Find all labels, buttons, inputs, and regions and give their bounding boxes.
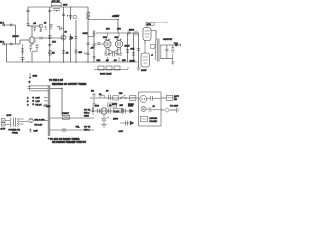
svg-text:FUSE: FUSE — [12, 132, 18, 134]
capacitor C36 — [27, 24, 30, 26]
label above terminal — [170, 104, 179, 107]
wire grid A — [94, 43, 104, 45]
wire coupling row — [35, 37, 64, 39]
note text line1 — [49, 80, 63, 82]
choke L1 — [100, 95, 105, 98]
resistor R5 — [48, 51, 51, 56]
label fuse — [12, 132, 18, 134]
capacitor C32 — [87, 43, 90, 45]
resistor R11 — [128, 31, 131, 34]
label right top — [174, 96, 180, 101]
tube V3 — [104, 40, 111, 47]
capacitor C22 on tap — [63, 128, 65, 132]
label J2 — [0, 41, 5, 43]
arrow output right — [130, 121, 134, 125]
wire plate stub — [31, 26, 33, 37]
wire to speaker terminal — [176, 44, 180, 47]
capacitor C6 bars — [48, 10, 51, 11]
capacitor C26 — [109, 108, 111, 113]
svg-text:117V: 117V — [1, 129, 6, 131]
wire grid V1 — [20, 39, 29, 41]
svg-text:GRN: GRN — [84, 116, 89, 118]
svg-text:8 uF: 8 uF — [114, 111, 119, 113]
label +285V — [112, 15, 120, 18]
svg-text:6.3V: 6.3V — [36, 101, 41, 103]
resistor R15 — [116, 52, 119, 55]
svg-text:6.3V: 6.3V — [34, 131, 39, 133]
label under box — [113, 118, 119, 121]
box label 117 — [114, 108, 122, 113]
wire V3 bottom — [106, 47, 109, 62]
resistor box R18 — [98, 66, 104, 70]
capacitor C33 — [84, 53, 89, 55]
svg-text:HEATERS OF OUTPUT TUBES: HEATERS OF OUTPUT TUBES — [52, 83, 87, 86]
svg-text:SW: SW — [120, 105, 123, 107]
label right of R3 — [63, 5, 67, 7]
svg-text:PILOT: PILOT — [36, 104, 43, 106]
capacitor C12 — [10, 24, 12, 27]
capacitor C1 on left drop — [27, 10, 30, 11]
svg-text:6.3V: 6.3V — [119, 131, 124, 133]
label near x70 — [70, 38, 74, 40]
wire vertical x76 — [75, 20, 77, 62]
plug P1 — [140, 96, 147, 103]
capacitor C18 — [120, 54, 123, 56]
transformer T1 core — [157, 39, 159, 62]
resistor R26 — [146, 108, 161, 111]
svg-text:117V: 117V — [174, 96, 180, 98]
resistor box R19 — [106, 66, 112, 70]
wire vertical x70.5 — [70, 7, 72, 62]
wire left of V6 — [138, 33, 140, 68]
label 6V6 B — [115, 37, 120, 39]
transformer T1 primary winding — [154, 40, 157, 60]
svg-text:.05: .05 — [106, 60, 110, 62]
svg-text:1K: 1K — [52, 53, 55, 55]
svg-text:OR PHONO PREAMP OUTPUT: OR PHONO PREAMP OUTPUT — [52, 141, 87, 144]
wire drop to screen line — [117, 20, 119, 34]
svg-text:.05: .05 — [114, 60, 118, 62]
label right stack3 — [84, 126, 91, 132]
wire bus left — [47, 85, 49, 136]
wire screen line — [96, 32, 139, 34]
svg-text:10W: 10W — [63, 5, 67, 7]
svg-text:PIN 4: PIN 4 — [84, 129, 90, 132]
svg-text:TO V4: TO V4 — [84, 126, 91, 129]
terminal block TB2 — [1, 123, 5, 126]
wire rail2 — [88, 19, 118, 21]
resistor R6 — [62, 51, 65, 54]
svg-text:20: 20 — [65, 32, 68, 34]
wire after F2 — [173, 97, 176, 99]
wire V3 top leads — [105, 33, 110, 41]
wire V1 cathode — [31, 43, 33, 62]
transformer T2 label box — [63, 115, 70, 119]
dashed boundary — [155, 21, 168, 23]
svg-text:.05: .05 — [33, 23, 37, 25]
pilot lamp terminal 2 — [27, 100, 48, 103]
wire grid riser — [19, 40, 21, 44]
wire input2 — [6, 43, 20, 45]
svg-text:270: 270 — [106, 29, 111, 31]
triode V2 curl — [61, 35, 66, 40]
label 6V6 A — [103, 37, 108, 39]
tube V8 — [101, 108, 107, 114]
svg-text:YEL: YEL — [76, 127, 81, 129]
resistor R14 — [104, 52, 107, 55]
svg-text:RED: RED — [46, 106, 51, 108]
resistor R22 small — [29, 129, 38, 133]
wire vertical x63.5 — [63, 7, 65, 62]
capacitor C35 — [48, 44, 51, 45]
label right stack2 — [76, 127, 81, 129]
input jack J1 — [2, 24, 6, 27]
svg-text:C: C — [27, 104, 29, 106]
label R5 value — [52, 53, 55, 55]
wire T3 taps — [19, 119, 28, 124]
wire label box lead — [146, 26, 148, 28]
svg-text:10K: 10K — [131, 49, 135, 51]
capacitor C14 on rail — [21, 58, 25, 63]
svg-text:20: 20 — [44, 22, 47, 24]
capacitor C34 grid — [98, 43, 101, 45]
wire tap1 — [50, 87, 62, 89]
resistor R13 — [93, 44, 96, 47]
label R8 value — [79, 52, 83, 54]
potentiometer R1 — [21, 44, 24, 62]
svg-text:MOTOR: MOTOR — [150, 118, 158, 120]
resistor R24 vertical — [92, 107, 94, 116]
wire PS chain — [90, 97, 139, 99]
tube V1 — [29, 37, 35, 43]
label heater stub — [33, 76, 38, 78]
capacitor C30 — [147, 96, 160, 101]
capacitor C9 — [75, 37, 78, 39]
svg-text:PIN 4: PIN 4 — [84, 112, 90, 115]
capacitor C10 coupling — [40, 37, 42, 40]
wire B+ top rail — [28, 6, 88, 8]
svg-text:+285V: +285V — [112, 15, 120, 18]
svg-text:SW: SW — [119, 93, 122, 95]
svg-text:INPUT: INPUT — [13, 36, 20, 38]
label inside1 — [153, 105, 156, 108]
resistor R3 top box — [52, 3, 62, 7]
svg-text:.1: .1 — [151, 55, 154, 57]
node tap — [61, 88, 62, 89]
svg-text:TO V3: TO V3 — [84, 110, 91, 112]
caption line1 — [48, 138, 80, 141]
resistor R17 — [132, 53, 135, 56]
wire tap130 — [50, 129, 94, 131]
resistor R12 — [93, 32, 96, 35]
label tap118 — [62, 113, 70, 115]
label right of V6 — [151, 55, 154, 57]
label R3 — [52, 0, 61, 3]
svg-text:47K 2W: 47K 2W — [52, 0, 61, 3]
svg-text:GND: GND — [33, 76, 38, 78]
node dots on rail — [27, 61, 88, 62]
rectifier V7 — [29, 118, 33, 122]
capacitor C37 heater — [28, 85, 31, 91]
label F — [29, 82, 31, 84]
capacitor C31 on x63 line — [57, 26, 63, 30]
svg-text:47: 47 — [153, 105, 156, 108]
label R4 value — [52, 41, 56, 44]
ground G4 — [171, 62, 175, 65]
svg-text:POWER TR: POWER TR — [9, 129, 21, 131]
wire B+ right drop — [87, 7, 89, 62]
ground PS1 — [92, 104, 96, 107]
label V6 — [141, 70, 147, 72]
lamp I1 — [141, 107, 146, 112]
svg-text:6V6: 6V6 — [103, 37, 108, 39]
svg-text:25: 25 — [66, 53, 69, 55]
svg-text:TWIST: TWIST — [62, 113, 70, 115]
resistor R9 cathode — [29, 46, 32, 53]
wire V4 top leads — [116, 33, 121, 41]
wire secondary top — [160, 44, 176, 46]
resistor box R20 — [114, 66, 120, 70]
capacitor C11 bypass — [32, 44, 38, 51]
label taps1 — [35, 120, 46, 122]
label PS row top2 — [99, 94, 102, 96]
svg-text:20: 20 — [106, 91, 109, 93]
svg-text:5Y3: 5Y3 — [95, 105, 100, 107]
label above band1 — [33, 23, 37, 25]
label near bus top — [43, 105, 50, 108]
wire exit top — [161, 97, 166, 99]
wire plate node — [28, 25, 41, 27]
transformer T3 secondary — [18, 118, 19, 127]
box inside — [141, 116, 148, 122]
capacitor C2 — [33, 28, 36, 32]
wire after diamond — [170, 109, 176, 111]
resistor R16 — [126, 50, 129, 53]
ground G2 — [101, 124, 107, 127]
wire joining inputs — [15, 25, 17, 44]
wire left drop — [27, 7, 29, 26]
svg-text:250: 250 — [122, 60, 127, 62]
label T3 — [9, 129, 21, 131]
caption line2 — [52, 141, 87, 144]
svg-text:250: 250 — [79, 52, 83, 54]
resistor R4 — [48, 36, 51, 39]
label PS row top4 — [119, 93, 122, 95]
capacitor C15 end of screen line — [135, 31, 137, 36]
svg-text:OUTPUT: OUTPUT — [163, 39, 173, 41]
wire V4 bottom — [118, 47, 121, 62]
left column output stage — [93, 30, 95, 62]
tube V6 rect lower — [141, 53, 150, 67]
svg-text:* TO AVC OF RADIO TUNER: * TO AVC OF RADIO TUNER — [48, 138, 80, 141]
svg-text:TO PIN 2 OF: TO PIN 2 OF — [49, 80, 63, 82]
switch S1 — [120, 95, 126, 99]
tube V4 — [115, 40, 122, 47]
capacitor C5 below rail — [53, 9, 60, 12]
svg-text:5V 6.3V: 5V 6.3V — [35, 124, 43, 126]
svg-text:250: 250 — [97, 60, 102, 62]
svg-text:BOARD: BOARD — [150, 120, 158, 123]
input jack J2 — [2, 43, 6, 46]
pilot lamp terminal 3 — [27, 103, 48, 106]
svg-text:A: A — [27, 97, 29, 100]
svg-text:220K: 220K — [125, 46, 130, 48]
wire second row — [120, 122, 130, 124]
capacitor C8 electrolytic — [67, 15, 77, 19]
svg-text:470K: 470K — [83, 32, 88, 35]
transformer T3 primary — [9, 118, 12, 127]
svg-text:TO AMP: TO AMP — [170, 104, 179, 107]
wire input1 — [6, 24, 15, 26]
transformer T1 secondary winding — [159, 45, 162, 58]
wire right column x133.5 — [133, 33, 135, 62]
svg-text:6V6: 6V6 — [115, 37, 120, 39]
label inside2 — [150, 118, 158, 123]
terminal plug — [176, 108, 178, 113]
label under arrow — [119, 131, 124, 133]
wire bus right — [49, 85, 51, 136]
svg-text:6.3V: 6.3V — [36, 98, 41, 100]
svg-text:47K: 47K — [52, 41, 56, 44]
svg-text:6V6: 6V6 — [147, 24, 152, 26]
terminal block TB1 — [1, 119, 5, 122]
node speaker plus — [175, 44, 178, 47]
label J1 — [0, 22, 5, 24]
capacitor C13 — [10, 43, 12, 46]
capacitor C20 — [165, 45, 168, 58]
label under boxes — [100, 74, 112, 76]
pilot lamp terminal 1 — [27, 97, 48, 100]
label bottom row3 — [120, 104, 134, 107]
wire to bus — [33, 120, 48, 122]
ground arrow heater — [29, 77, 31, 79]
wire tap vertical — [61, 88, 63, 115]
capacitor C4 — [50, 25, 53, 30]
label T1 — [163, 39, 173, 41]
label right stack1 — [84, 110, 91, 118]
resistor R25 — [121, 108, 123, 114]
label PS row top3 — [106, 91, 109, 93]
wire cross coupling — [106, 49, 121, 56]
resistor R21 — [171, 45, 174, 62]
label x88 top — [83, 32, 88, 35]
resistor R10 dropping — [87, 12, 90, 18]
capacitor C29 — [126, 121, 128, 126]
label bottom row1 — [95, 105, 100, 107]
box R23 — [113, 96, 119, 100]
svg-text:270: 270 — [117, 29, 122, 31]
resistor R2 chain — [39, 25, 42, 33]
label above T3 — [7, 115, 12, 117]
label box V5 — [146, 22, 154, 26]
label screen resistors — [106, 29, 135, 32]
transformer T3 core — [13, 118, 15, 127]
resistor box R27 — [150, 45, 155, 49]
wire secondary bottom — [160, 57, 173, 59]
svg-text:AC: AC — [174, 98, 178, 101]
label taps2 — [35, 124, 43, 126]
svg-text:117V: 117V — [7, 115, 12, 117]
wire V5 plate to transformer — [151, 31, 156, 41]
wire heater line3 — [31, 90, 49, 92]
capacitor C25 — [98, 109, 100, 113]
svg-text:B: B — [27, 101, 29, 103]
label C31 — [65, 32, 68, 34]
wire ground left — [6, 44, 8, 62]
box F1 — [130, 96, 136, 101]
capacitor C3 plus — [45, 26, 47, 30]
ground G3 — [136, 68, 140, 71]
label R6 value — [66, 53, 69, 55]
wire grid feed — [88, 36, 94, 38]
enclosure box — [139, 92, 162, 126]
svg-text:IN 2: IN 2 — [0, 41, 5, 43]
label right column — [125, 46, 135, 51]
capacitor C28 electrolytic — [102, 117, 109, 124]
label input — [13, 36, 20, 38]
capacitor C27 — [124, 109, 126, 114]
arrow main row — [130, 109, 135, 113]
note text line2 — [52, 83, 87, 86]
wire V6 top lead — [144, 44, 146, 53]
svg-text:F: F — [29, 82, 31, 84]
label under F1 — [128, 104, 134, 106]
wire bottom chain — [91, 110, 130, 112]
label row under tubes — [97, 60, 136, 63]
label C32 — [91, 48, 95, 50]
label voice coil — [174, 43, 179, 45]
label above band2 — [44, 22, 47, 24]
svg-text:6SN7: 6SN7 — [141, 70, 147, 72]
capacitor C17 — [108, 54, 111, 56]
label bottom row2 — [108, 103, 117, 107]
wire exit mid — [161, 109, 164, 111]
box F2 — [166, 95, 172, 100]
tube V5 rect upper — [143, 28, 151, 41]
svg-text:100K 100K: 100K 100K — [100, 74, 112, 76]
resistor R7 — [69, 37, 72, 40]
label TB — [1, 129, 6, 131]
resistor R8 — [75, 50, 78, 53]
capacitor C19 between tubes — [113, 53, 115, 57]
svg-text:8H: 8H — [91, 91, 94, 93]
capacitor C24 — [108, 95, 110, 100]
wire under boxes — [94, 67, 128, 69]
capacitor C21 — [137, 49, 140, 51]
svg-text:450V: 450V — [128, 104, 134, 107]
wire tap118 — [50, 117, 94, 119]
label PS row top1 — [91, 91, 94, 93]
svg-text:IN 1: IN 1 — [0, 22, 5, 24]
capacitor C23 input — [93, 93, 96, 105]
capacitor C7 — [62, 14, 65, 16]
svg-text:100K: 100K — [130, 60, 136, 62]
svg-text:450V: 450V — [113, 118, 119, 121]
wire right column x127.5 — [127, 33, 129, 62]
capacitor C16 — [93, 57, 96, 59]
wire TB to T3 — [5, 120, 9, 124]
label under R23 — [112, 104, 118, 106]
wire heater line2 — [31, 87, 49, 89]
wire heater stub — [29, 73, 31, 77]
wire vertical x50 — [49, 7, 51, 62]
diamond D1 — [165, 108, 170, 112]
wire heater line1 — [31, 85, 49, 87]
node B2 — [117, 19, 118, 20]
wire ground rail — [7, 61, 138, 63]
wire V5 bottom lead — [144, 40, 146, 44]
wire V8 cathode drop — [103, 114, 105, 118]
